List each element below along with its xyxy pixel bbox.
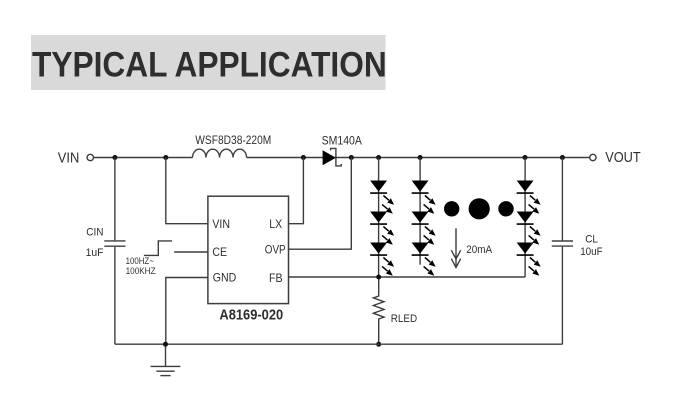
svg-text:RLED: RLED	[391, 313, 417, 325]
LED D8 arrows	[529, 227, 541, 245]
ground	[165, 344, 167, 366]
ellipsis dot 1	[444, 201, 459, 216]
LED string 1 wire	[378, 158, 380, 278]
svg-text:TYPICAL APPLICATION: TYPICAL APPLICATION	[32, 46, 387, 85]
capacitor CIN	[114, 158, 116, 241]
junction LX node	[301, 155, 306, 160]
LED D4 string2	[412, 181, 429, 194]
junction VIN branch	[163, 155, 168, 160]
LED D3 string1	[370, 243, 387, 256]
LED D1 string1	[370, 181, 387, 194]
LED D9 string3	[517, 243, 534, 256]
junction dot ground	[163, 342, 168, 347]
capacitor CL	[561, 158, 563, 241]
inductor WSF8D38-220M	[193, 149, 247, 157]
svg-text:100HZ~: 100HZ~	[126, 256, 154, 266]
svg-text:VOUT: VOUT	[605, 150, 641, 166]
CE pin wire	[174, 251, 208, 253]
LED D6 arrows	[424, 258, 436, 276]
svg-text:CIN: CIN	[86, 227, 103, 239]
diode SM140A	[323, 148, 342, 166]
node VIN terminal	[87, 154, 93, 160]
svg-text:WSF8D38-220M: WSF8D38-220M	[195, 133, 271, 147]
svg-text:LX: LX	[269, 217, 282, 231]
LED D3 arrows	[382, 258, 394, 276]
junction LED string 3 top	[523, 155, 528, 160]
LED D8 string3	[517, 212, 534, 225]
LED D4 arrows	[424, 196, 436, 214]
20mA current arrow	[455, 228, 457, 266]
svg-text:SM140A: SM140A	[322, 133, 362, 147]
LED string 3 wire	[524, 158, 526, 278]
ellipsis dot 3	[498, 201, 513, 216]
LED D6 string2	[412, 243, 429, 256]
junction CL top	[560, 155, 565, 160]
svg-text:VIN: VIN	[212, 217, 230, 231]
svg-text:VIN: VIN	[58, 151, 80, 167]
CE clock step symbol	[144, 241, 172, 256]
LX pin wire	[289, 158, 304, 224]
resistor RLED	[373, 277, 384, 344]
LED D5 arrows	[424, 227, 436, 245]
bottom rail wire	[115, 343, 563, 345]
LED D1 arrows	[382, 196, 394, 214]
svg-text:20mA: 20mA	[466, 244, 492, 256]
LED D7 arrows	[529, 196, 541, 214]
LED D5 string2	[412, 212, 429, 225]
svg-text:100KHZ: 100KHZ	[126, 266, 157, 276]
junction CIN top	[112, 155, 117, 160]
svg-text:FB: FB	[269, 271, 283, 285]
junction LED string 1 top	[376, 155, 381, 160]
OVP pin wire	[289, 158, 352, 250]
LED D2 arrows	[382, 227, 394, 245]
title block	[31, 35, 386, 90]
GND pin wire	[166, 278, 208, 345]
op IC U1 A8169-020 box	[208, 196, 289, 303]
junction dot RLED top	[376, 275, 381, 280]
svg-text:GND: GND	[213, 271, 237, 285]
svg-text:OVP: OVP	[265, 242, 286, 256]
ellipsis dot 2	[469, 198, 490, 219]
VIN pin branch wire	[166, 158, 208, 224]
svg-text:A8169-020: A8169-020	[219, 307, 283, 323]
LED D2 string1	[370, 212, 387, 225]
svg-text:1uF: 1uF	[86, 247, 104, 259]
LED D9 arrows	[529, 258, 541, 276]
FB pin wire / LED bottom rail	[289, 276, 526, 278]
svg-text:CL: CL	[585, 233, 598, 245]
wire top rail left	[94, 157, 193, 159]
LED D7 string3	[517, 181, 534, 194]
junction LED string 2 top	[418, 155, 423, 160]
svg-text:CE: CE	[212, 245, 227, 259]
node VOUT terminal	[590, 154, 596, 160]
svg-text:10uF: 10uF	[580, 246, 603, 258]
LED string 2 wire	[419, 158, 421, 265]
junction dot RLED bottom	[376, 342, 381, 347]
junction OVP node	[349, 155, 354, 160]
wire top rail right	[247, 157, 590, 159]
